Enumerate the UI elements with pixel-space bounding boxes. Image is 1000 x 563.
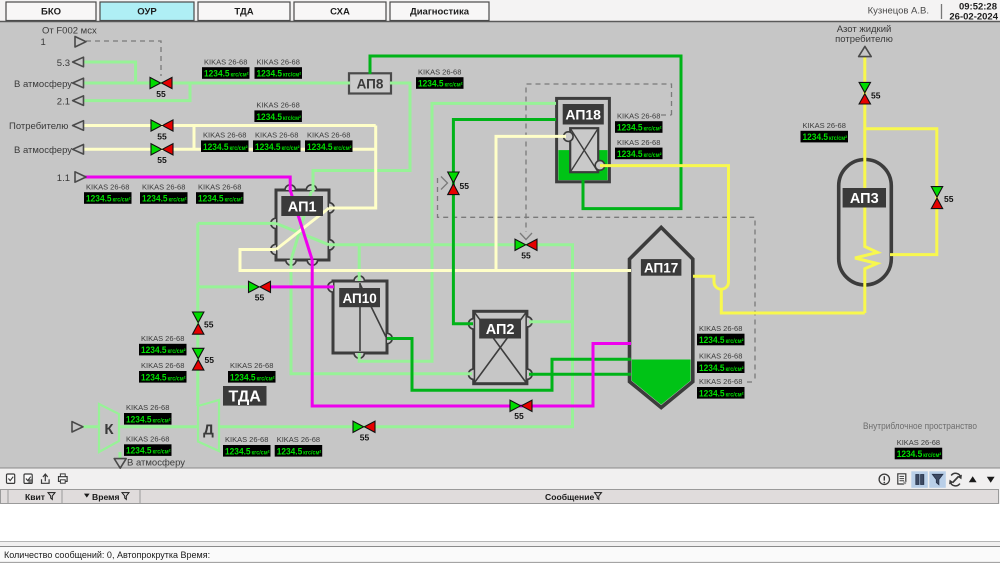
valve 55 on В атмосферу line (161,83) (150, 77, 161, 88)
svg-text:55: 55 (157, 132, 167, 142)
indicator KIKAS 26-68 (k15) (697, 377, 745, 398)
wire АП1 left-mid to vertical header (198, 222, 276, 225)
wire АП1 interior yellow diagonal (276, 208, 329, 250)
wire АП1 interior pale green 1 (276, 223, 329, 244)
tab Диагностика (390, 2, 489, 21)
toolbar icon scroll down (987, 477, 995, 483)
svg-text:Потребителю: Потребителю (9, 121, 68, 132)
svg-text:KIKAS 26-68: KIKAS 26-68 (699, 324, 742, 333)
АП10 internals (359, 283, 361, 351)
dashed loop: KIKAS at АП18 to valve 55 at (526,244.8) (526, 84, 672, 232)
svg-text:KIKAS 26-68: KIKAS 26-68 (86, 182, 129, 191)
valve 55 on Д discharge (364,426.8) (353, 421, 364, 432)
svg-text:KIKAS 26-68: KIKAS 26-68 (699, 352, 742, 361)
svg-text:АП10: АП10 (342, 291, 376, 306)
indicator KIKAS 26-68 (k24) (895, 438, 943, 459)
svg-text:Количество сообщений: 0, Автоп: Количество сообщений: 0, Автопрокрутка В… (4, 550, 210, 560)
svg-text:KIKAS 26-68: KIKAS 26-68 (617, 138, 660, 147)
svg-text:55: 55 (944, 194, 954, 204)
svg-text:От F002 мсх: От F002 мсх (42, 26, 97, 37)
indicator KIKAS 26-68 (k22) (223, 435, 271, 456)
wire АП10 bottom to АП18 left-top (359, 103, 556, 361)
svg-text:26-02-2024: 26-02-2024 (949, 11, 998, 22)
indicator KIKAS 26-68 (k13) (697, 324, 745, 345)
label АП17 (641, 259, 682, 276)
svg-text:АП2: АП2 (486, 322, 515, 338)
label АП3 (843, 188, 886, 208)
wire tee down to АП10 top (358, 245, 361, 281)
wire valve to АП10 left-top (268, 285, 334, 288)
tab ОУР (active) (100, 2, 194, 21)
indicator KIKAS 26-68 (k23) (275, 435, 323, 456)
АП2 internals X (474, 311, 527, 383)
arrow В атмосферу-2 (73, 145, 84, 155)
svg-text:2.1: 2.1 (57, 96, 70, 107)
wire АП1 bottom-left to АП2 left-bottom (291, 260, 472, 374)
indicator KIKAS 26-68 (k18) (139, 361, 187, 382)
svg-text:5.3: 5.3 (57, 58, 70, 69)
svg-text:АП3: АП3 (850, 191, 879, 207)
wire АП18 outlet to seal cup (600, 166, 729, 282)
toolbar icon info (879, 474, 889, 484)
svg-text:KIKAS 26-68: KIKAS 26-68 (142, 182, 185, 191)
svg-text:К: К (104, 421, 114, 438)
svg-text:АП1: АП1 (288, 199, 317, 215)
indicator KIKAS 26-68 (k12) (615, 138, 663, 159)
svg-text:ТДА: ТДА (229, 389, 262, 406)
svg-text:Кузнецов А.В.: Кузнецов А.В. (868, 6, 929, 17)
svg-text:KIKAS 26-68: KIKAS 26-68 (255, 131, 298, 140)
svg-text:Сообщение: Сообщение (545, 492, 595, 502)
indicator KIKAS 26-68 (k17) (139, 334, 187, 355)
toolbar icon journal (898, 474, 906, 484)
svg-text:1: 1 (41, 37, 46, 48)
toolbar icon print (59, 477, 68, 482)
label АП2 (479, 319, 521, 339)
arrow Потребителю (73, 121, 84, 131)
svg-text:KIKAS 26-68: KIKAS 26-68 (617, 111, 660, 120)
wire 2.1 branch (84, 84, 190, 101)
АП18 nozzle right (595, 161, 605, 171)
wire Потребителю line (84, 124, 376, 127)
svg-text:55: 55 (204, 320, 214, 330)
valve 55 vertical on return line (937,197.6) (931, 187, 942, 198)
svg-text:В атмосферу: В атмосферу (127, 458, 185, 469)
tab СХА (294, 2, 386, 21)
compressor К (99, 404, 119, 452)
wire seal cup to АП3 bottom line (721, 289, 865, 313)
svg-text:АП17: АП17 (644, 260, 678, 275)
svg-text:KIKAS 26-68: KIKAS 26-68 (126, 403, 169, 412)
svg-text:KIKAS 26-68: KIKAS 26-68 (141, 361, 184, 370)
svg-text:В атмосферу: В атмосферу (14, 79, 72, 90)
indicator KIKAS 26-68 (k9) (196, 182, 244, 203)
tab БКО (6, 2, 96, 21)
toolbar icon scroll up (969, 476, 977, 482)
svg-text:55: 55 (156, 89, 166, 99)
АП1 nozzles (271, 185, 334, 265)
valve 55 on magenta line (521,405.8) (510, 400, 521, 411)
indicator KIKAS 26-68 (k1) (202, 57, 250, 78)
dash stub to АП18 KIKAS label (661, 114, 672, 116)
message list (0, 504, 1000, 541)
arrow 1.1 (75, 172, 86, 182)
status bar (0, 546, 1000, 548)
svg-text:55: 55 (205, 355, 215, 365)
svg-text:55: 55 (460, 181, 470, 191)
wire К vent stub (119, 452, 122, 459)
indicator KIKAS 26-68 (k5) (253, 131, 301, 152)
indicator KIKAS 26-68 (k8) (140, 182, 188, 203)
wire 1.1 line to АП1 top-left (84, 177, 290, 192)
svg-text:KIKAS 26-68: KIKAS 26-68 (277, 435, 320, 444)
svg-text:KIKAS 26-68: KIKAS 26-68 (257, 57, 300, 66)
valve 55 on В атмосферу-2 line (162,149.3) (151, 144, 162, 155)
wire АП1 interior pale green 2 (291, 191, 312, 260)
АП17 liquid level fill (632, 360, 691, 405)
svg-text:KIKAS 26-68: KIKAS 26-68 (203, 131, 246, 140)
arrow 5.3 (73, 57, 84, 67)
heat exchanger АП10 body (333, 281, 387, 353)
dashed arrowhead pointing down at valve (526,244.8) (520, 233, 532, 240)
svg-text:KIKAS 26-68: KIKAS 26-68 (225, 435, 268, 444)
wire АП18 left feed down to АП2 left-top (453, 120, 556, 324)
svg-text:KIKAS 26-68: KIKAS 26-68 (230, 361, 273, 370)
toolbar icon refresh/edit (951, 473, 961, 477)
wire АП3 top branch to return (865, 129, 937, 255)
label АП18 (563, 104, 604, 125)
heat exchanger АП1 body (276, 190, 329, 260)
svg-text:KIKAS 26-68: KIKAS 26-68 (204, 57, 247, 66)
wire tee to valve 55 at (259,287) (198, 285, 250, 288)
wire 5.3 branch (84, 62, 136, 83)
wire АП10 right to АП17 inlet 1 (387, 339, 631, 391)
wire tee up to АП18 left nozzle (496, 136, 566, 270)
dashed line: valve(453,183) to АП17 KIKAS label via x=755 (438, 178, 756, 382)
arrow В атмосферу-1 (73, 78, 84, 88)
svg-text:ОУР: ОУР (137, 7, 157, 18)
block АП8 body (349, 73, 391, 93)
svg-text:55: 55 (157, 155, 167, 165)
svg-text:потребителю: потребителю (835, 34, 893, 45)
indicator KIKAS 26-68 (k3) (254, 101, 302, 122)
column АП17 body (630, 227, 693, 407)
indicator KIKAS 26-68 (k7) (84, 182, 132, 203)
separator (941, 4, 943, 19)
indicator KIKAS 26-68 (k20) (124, 403, 172, 424)
valve 55 on Потребителю line (162,125.5) (151, 120, 162, 131)
arrow В атмосферу vent down (114, 459, 126, 469)
svg-text:KIKAS 26-68: KIKAS 26-68 (418, 67, 461, 76)
tab ТДА (198, 2, 290, 21)
svg-text:KIKAS 26-68: KIKAS 26-68 (198, 182, 241, 191)
wire АП2 right-top to header (529, 320, 573, 323)
indicator KIKAS 26-68 (k14) (697, 352, 745, 373)
indicator KIKAS 26-68 (k10) (416, 67, 464, 88)
arrow from F002 (75, 37, 86, 48)
indicator KIKAS 26-68 (k11) (615, 111, 663, 132)
svg-text:KIKAS 26-68: KIKAS 26-68 (256, 101, 299, 110)
heat exchanger АП2 body (474, 311, 527, 383)
valve 55 vertical (453.4,183.3) (448, 172, 459, 183)
wire АП17 outlet to seal cup (693, 276, 714, 282)
dashed arrowhead pointing right at valve (453,183) (441, 177, 448, 190)
wire АП3 main vertical with heater zigzag (855, 57, 878, 313)
label АП10 (339, 288, 380, 307)
vessel АП3 body (839, 160, 892, 285)
indicator KIKAS 26-68 (k16) (801, 121, 849, 142)
arrow К inlet (72, 422, 83, 432)
svg-text:KIKAS 26-68: KIKAS 26-68 (803, 121, 846, 130)
wire АП8 outlet to АП1 top (313, 83, 410, 192)
svg-text:В атмосферу: В атмосферу (14, 145, 72, 156)
indicator KIKAS 26-68 (k21) (124, 435, 172, 456)
dash stub to АП17 KIKAS label (747, 381, 755, 383)
label ТДА (223, 386, 267, 406)
dashed signal line from F002 arrow to valve 55 at (161,83) (86, 41, 161, 76)
svg-text:55: 55 (871, 91, 881, 101)
wire В атмосферу line to АП8 (84, 82, 350, 85)
svg-text:Внутриблочное пространство: Внутриблочное пространство (863, 421, 977, 432)
svg-text:АП18: АП18 (565, 107, 601, 123)
wire АП1 right-mid to АП2/Д header (219, 245, 573, 427)
wire compressor К inlet (83, 425, 100, 428)
toolbar icon acknowledge (7, 474, 15, 483)
svg-text:Квит: Квит (25, 492, 45, 502)
arrow 2.1 (73, 96, 84, 106)
svg-text:БКО: БКО (41, 7, 61, 18)
indicator KIKAS 26-68 (k6) (305, 131, 353, 152)
svg-text:KIKAS 26-68: KIKAS 26-68 (141, 334, 184, 343)
svg-text:Д: Д (203, 422, 214, 439)
wire АП8 top loop to АП18 bottom (370, 56, 681, 209)
АП18 nozzle left (564, 132, 574, 142)
wire К-Д shaft (118, 425, 199, 428)
wire tie between yellow lines x=194 (193, 126, 196, 150)
svg-text:KIKAS 26-68: KIKAS 26-68 (699, 377, 742, 386)
svg-text:55: 55 (521, 251, 531, 261)
filter glyphs (48, 493, 602, 500)
wire АП1 interior magenta diagonal (290, 190, 312, 260)
valve 55 vertical (198.2,359.2) (193, 348, 204, 358)
АП18 inner exchanger (570, 128, 598, 172)
valve 55 vertical on АП3 line (864.8,93.2) (859, 82, 870, 92)
arrow Азот жидкий up (859, 46, 872, 56)
sort arrow (84, 494, 90, 498)
wire vertical header x=197.8 down to Д (196, 223, 199, 406)
wire АП1 bottom magenta to АП17 (312, 260, 631, 406)
indicator KIKAS 26-68 (k2) (255, 57, 303, 78)
indicator KIKAS 26-68 (k4) (201, 131, 249, 152)
label АП1 (281, 196, 323, 216)
svg-text:KIKAS 26-68: KIKAS 26-68 (897, 438, 940, 447)
message table header (1, 490, 999, 504)
seal cup (714, 282, 729, 289)
svg-text:KIKAS 26-68: KIKAS 26-68 (126, 435, 169, 444)
valve 55 before АП10 (259.5,286.9) (249, 281, 260, 292)
svg-text:ТДА: ТДА (234, 7, 253, 18)
АП2 nozzles (469, 317, 533, 380)
vessel АП18 body (557, 98, 610, 181)
svg-text:Время: Время (92, 492, 120, 502)
toolbar icon filter (active) (929, 471, 946, 488)
svg-text:СХА: СХА (330, 7, 350, 18)
toolbar icon pause (active) (911, 471, 928, 488)
svg-text:KIKAS 26-68: KIKAS 26-68 (307, 131, 350, 140)
wire АП1 bottom-left yellow to АП17 (240, 250, 631, 271)
АП18 liquid level fill (558, 150, 607, 180)
wire В атмосферу-2 line (84, 148, 376, 151)
svg-text:55: 55 (255, 293, 265, 303)
svg-text:АП8: АП8 (357, 77, 384, 92)
АП10 nozzles (328, 276, 392, 358)
valve 55 on header (526,244.8) (515, 239, 526, 250)
indicator KIKAS 26-68 (k19) (228, 361, 276, 382)
svg-text:Диагностика: Диагностика (410, 7, 470, 18)
svg-text:1.1: 1.1 (57, 173, 70, 184)
toolbar icon acknowledge-all (24, 474, 32, 483)
expander Д (198, 400, 219, 451)
toolbar icon export (42, 479, 50, 483)
valve 55 vertical (198.2,323.1) (193, 312, 204, 323)
wire АП2 right-bottom to АП17 inlet 2 (529, 373, 631, 376)
svg-text:55: 55 (360, 433, 370, 443)
wire yellow drop to АП1 right-top (329, 126, 376, 209)
svg-text:55: 55 (514, 411, 524, 421)
